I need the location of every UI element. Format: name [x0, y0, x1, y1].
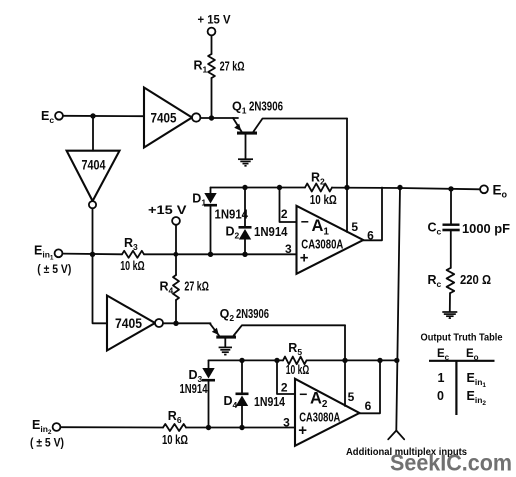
node multiplex rail top: [397, 185, 402, 190]
node Ein1 junction: [90, 252, 95, 257]
svg-text:( ± 5 V): ( ± 5 V): [30, 436, 64, 450]
wire R2 to Eo: [332, 188, 480, 190]
diode D2 1N914: [242, 185, 247, 190]
transistor Q2 collector: [234, 325, 345, 335]
transistor Q1 collector: [254, 119, 348, 132]
inverter 7405 lower: [107, 296, 155, 351]
wire Q2 collector down to rail 2: [344, 325, 346, 360]
svg-text:10 kΩ: 10 kΩ: [310, 193, 337, 207]
wire feedback rail circuit 2: [209, 359, 284, 361]
svg-text:+: +: [298, 422, 307, 439]
node R4 bottom junction: [173, 321, 178, 326]
svg-text:−: −: [299, 386, 307, 402]
output terminal Eo: [480, 185, 488, 193]
wire 7404 output down to Ein1 row: [92, 208, 94, 254]
resistor R6 10k: [163, 424, 186, 431]
resistor R3 10k: [122, 251, 144, 258]
wire output rail top: [211, 187, 306, 189]
svg-text:2: 2: [281, 207, 288, 221]
svg-text:5: 5: [348, 390, 355, 404]
resistor R2 10k: [305, 184, 332, 192]
inverter 7404: [67, 151, 120, 201]
svg-text:7404: 7404: [82, 158, 106, 173]
transistor Q1 base bar: [237, 132, 257, 135]
svg-text:+: +: [300, 250, 309, 267]
capacitor Cc 1000 pF: [448, 186, 453, 191]
wire R3 to A1 pin 3: [144, 253, 297, 255]
svg-text:( ± 5 V): ( ± 5 V): [37, 262, 71, 276]
node R3/R4 junction: [173, 252, 178, 257]
wire pin 6 A2 output: [359, 360, 380, 413]
inverter 7405 upper: [144, 88, 192, 148]
svg-text:7405: 7405: [115, 315, 142, 331]
resistor R1 27k: [208, 54, 215, 78]
wire pin 5 A1: [346, 188, 348, 233]
ground under Rc: [442, 311, 457, 313]
wire R1 to node: [211, 78, 213, 118]
fork additional multiplex inputs: [388, 431, 404, 440]
ground under Q2: [224, 339, 226, 347]
resistor R4 27k: [175, 254, 177, 275]
resistor Rc 220 ohm: [447, 268, 455, 293]
wire Ein1 node down to lower 7405 input: [93, 254, 108, 323]
svg-text:10 kΩ: 10 kΩ: [120, 259, 145, 273]
svg-text:10 kΩ: 10 kΩ: [286, 363, 310, 377]
diode D1 1N914: [210, 188, 212, 194]
svg-text:+ 15 V: + 15 V: [198, 13, 231, 27]
svg-text:Output Truth Table: Output Truth Table: [421, 332, 503, 344]
svg-text:SeekIC.com: SeekIC.com: [390, 449, 512, 475]
node multiplex rail crossing: [394, 358, 399, 363]
wire pin 2 of A1: [277, 185, 282, 190]
node R1 bottom junction: [209, 115, 214, 120]
svg-text:10 kΩ: 10 kΩ: [162, 433, 188, 447]
wire Ec to 7405 input: [63, 115, 144, 117]
wire 7405 output to Q2: [163, 322, 211, 324]
wire long vertical multiplex line: [396, 188, 400, 431]
resistor R5 10k: [283, 357, 307, 365]
diode D3 1N914: [208, 360, 210, 368]
svg-text:1N914: 1N914: [254, 225, 288, 239]
svg-text:2N3906: 2N3906: [249, 100, 283, 114]
truth table header line: [429, 360, 495, 362]
svg-text:27 kΩ: 27 kΩ: [184, 280, 209, 294]
svg-text:−: −: [301, 214, 309, 230]
wire +15V to R1: [211, 35, 213, 54]
svg-text:6: 6: [365, 399, 372, 413]
wire pin 5 A2: [342, 358, 347, 363]
ground under Q1: [245, 135, 247, 159]
transistor Q1 emitter: [233, 118, 242, 132]
wire 7405 output to Q1 emitter: [200, 117, 238, 119]
transistor Q2 emitter: [210, 324, 219, 336]
wire pin 6 A1 output: [363, 188, 382, 241]
svg-text:2: 2: [281, 381, 288, 395]
svg-text:1N914: 1N914: [180, 382, 208, 396]
op-amp A2 CA3080A: [295, 379, 359, 446]
svg-text:6: 6: [367, 229, 374, 243]
svg-text:27 kΩ: 27 kΩ: [220, 60, 245, 74]
svg-text:1N914: 1N914: [215, 208, 249, 222]
transistor Q2 base bar: [216, 336, 236, 339]
node junction Ec branch: [90, 113, 95, 118]
wire R6 to A2 pin 3: [186, 427, 295, 429]
svg-text:2N3906: 2N3906: [236, 307, 269, 321]
wire Q1 collector down to output rail: [346, 119, 348, 188]
svg-text:0: 0: [437, 389, 444, 403]
diode D4 1N914: [239, 358, 244, 363]
svg-text:220 Ω: 220 Ω: [460, 273, 491, 287]
svg-text:7405: 7405: [151, 109, 177, 125]
truth table divider line: [455, 361, 457, 415]
wire pin 2 of A2: [274, 358, 279, 363]
svg-text:1: 1: [438, 371, 445, 385]
svg-text:+15 V: +15 V: [148, 203, 187, 217]
wire down to 7404: [92, 116, 94, 151]
svg-text:1N914: 1N914: [254, 395, 285, 409]
svg-text:1000 pF: 1000 pF: [462, 222, 510, 236]
svg-text:5: 5: [351, 220, 358, 234]
op-amp A1 CA3080A: [297, 206, 364, 274]
